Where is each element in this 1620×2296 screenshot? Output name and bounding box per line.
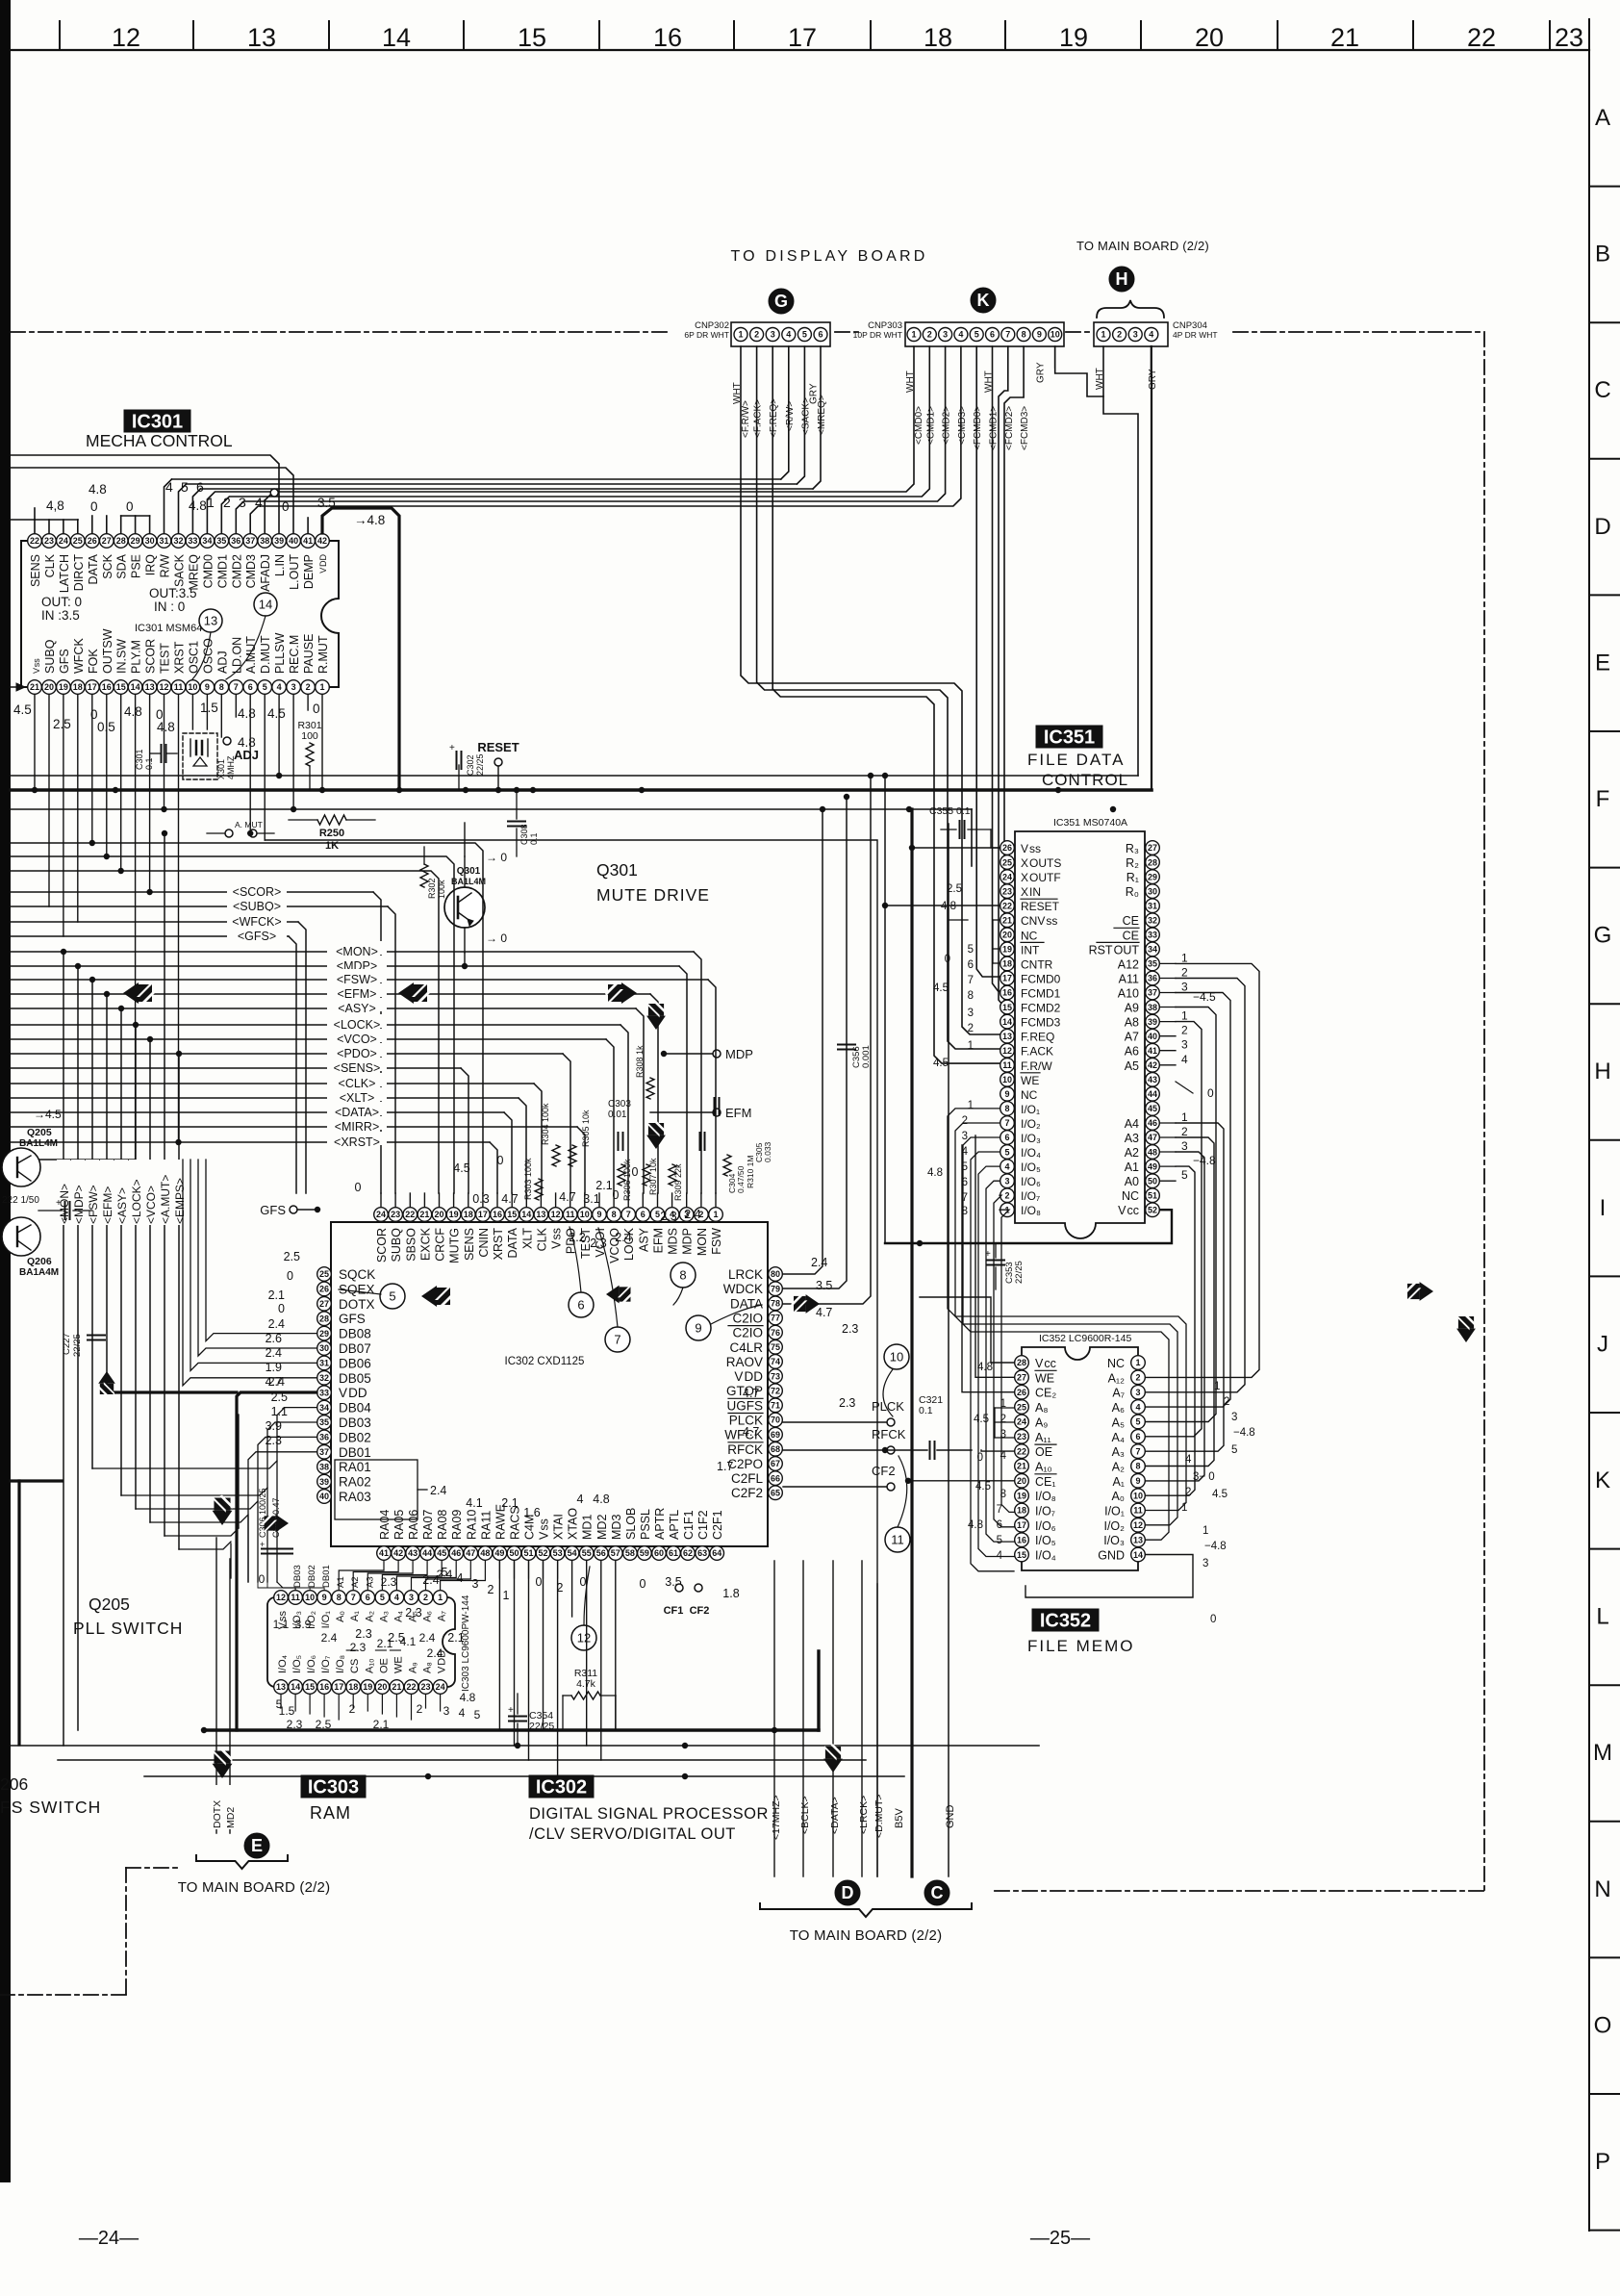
svg-text:9: 9 (596, 1210, 601, 1219)
svg-text:4.8: 4.8 (189, 498, 207, 513)
svg-text:48: 48 (480, 1548, 490, 1558)
IC302 right pin column 80-65 (769, 1267, 783, 1500)
svg-text:13: 13 (1002, 1032, 1012, 1041)
svg-text:NC: NC (1107, 1357, 1125, 1370)
svg-text:<FCMD2>: <FCMD2> (1004, 406, 1015, 450)
svg-text:19: 19 (449, 1210, 459, 1219)
svg-text:I/O₄: I/O₄ (277, 1654, 289, 1673)
svg-text:11: 11 (174, 682, 184, 692)
svg-text:36: 36 (231, 536, 240, 546)
svg-text:49: 49 (1148, 1161, 1157, 1171)
svg-text:I/O₅: I/O₅ (1021, 1161, 1041, 1174)
IC302 left pin column 25-40 (317, 1267, 332, 1504)
svg-text:ADJ: ADJ (234, 748, 259, 762)
svg-text:4.8: 4.8 (238, 706, 256, 721)
svg-text:DIGITAL SIGNAL PROCESSOR: DIGITAL SIGNAL PROCESSOR (529, 1805, 769, 1823)
svg-text:78: 78 (771, 1299, 780, 1309)
svg-text:R250: R250 (319, 828, 344, 839)
svg-text:A2: A2 (1125, 1146, 1139, 1160)
svg-text:25: 25 (319, 1269, 329, 1279)
svg-text:28: 28 (116, 536, 126, 546)
svg-text:39: 39 (274, 536, 284, 546)
svg-text:0.1: 0.1 (919, 1405, 933, 1416)
svg-text:A₄: A₄ (1112, 1431, 1125, 1444)
svg-text:17: 17 (1002, 974, 1012, 983)
svg-text:1: 1 (438, 1593, 443, 1602)
wire corridor IC302 right pins to bus (783, 773, 873, 1304)
terminal EFM (650, 1106, 751, 1120)
svg-text:2.4: 2.4 (419, 1631, 436, 1645)
svg-text:<VCO>: <VCO> (144, 1186, 158, 1224)
svg-text:PAUSE: PAUSE (302, 634, 316, 674)
svg-text:2: 2 (306, 682, 311, 692)
svg-text:20: 20 (377, 1682, 387, 1692)
svg-text:34: 34 (319, 1403, 329, 1413)
svg-text:34: 34 (1148, 945, 1157, 955)
svg-text:BA1L4M: BA1L4M (19, 1138, 58, 1149)
svg-text:I/O₅: I/O₅ (1035, 1534, 1056, 1547)
svg-text:22: 22 (30, 536, 39, 546)
IC302 circled ref 10 and 11 with leaders (883, 1344, 910, 1552)
svg-text:OUTSW: OUTSW (101, 628, 114, 674)
svg-text:2: 2 (962, 1115, 968, 1127)
svg-text:X301: X301 (216, 759, 226, 779)
svg-text:→ 0: → 0 (486, 931, 507, 945)
IC302 label box (529, 1775, 594, 1798)
svg-text:WE: WE (1021, 1074, 1039, 1087)
svg-text:0: 0 (1210, 1614, 1216, 1625)
IC303 annotations (259, 1568, 481, 1731)
svg-text:IC302: IC302 (536, 1776, 587, 1798)
svg-text:TEST: TEST (159, 643, 172, 674)
terminal GFS with wire (260, 1203, 320, 1217)
svg-text:PLL SWITCH: PLL SWITCH (73, 1619, 183, 1638)
IC302 body CXD1125 (331, 1222, 768, 1546)
svg-text:<FSW>: <FSW> (87, 1185, 100, 1224)
svg-text:RESET: RESET (477, 740, 519, 754)
svg-text:3: 3 (1004, 1176, 1009, 1186)
connector ref G (769, 289, 794, 314)
thick wire L from left to VDD line (107, 1390, 237, 1393)
svg-text:IC303 LC9600PW-144: IC303 LC9600PW-144 (461, 1594, 471, 1692)
IC302 right pin labels (723, 1267, 764, 1500)
svg-text:14: 14 (1133, 1550, 1143, 1560)
wire FCMD bus CNP303 pins5-8 down to IC351 pins17-14 (976, 346, 1024, 1020)
svg-text:23: 23 (391, 1210, 400, 1219)
dash-dot board boundary, top horizontal (11, 331, 1484, 333)
svg-text:31: 31 (319, 1359, 329, 1368)
svg-text:MD3: MD3 (610, 1515, 623, 1540)
svg-text:1: 1 (1135, 1358, 1140, 1367)
thick wire vertical left (17, 1481, 20, 1745)
svg-text:10: 10 (1050, 330, 1060, 340)
svg-text:15: 15 (116, 682, 126, 692)
reference E (244, 1833, 269, 1858)
svg-text:B5V: B5V (894, 1808, 905, 1828)
wire F-bus CNP302 pins1-3 down-right to IC351 (741, 346, 1000, 1063)
svg-text:4.7: 4.7 (816, 1306, 832, 1319)
svg-text:<CMD3>: <CMD3> (957, 406, 968, 445)
IC301 inner annotations (41, 586, 277, 679)
svg-text:RACS: RACS (509, 1506, 522, 1540)
svg-text:12: 12 (276, 1593, 286, 1602)
svg-text:GFS: GFS (339, 1312, 366, 1326)
svg-text:A9: A9 (1125, 1002, 1139, 1015)
svg-text:37: 37 (319, 1447, 329, 1457)
svg-text:5: 5 (997, 1535, 1002, 1546)
resistor R302 100k (420, 847, 446, 903)
svg-text:21: 21 (30, 682, 39, 692)
svg-text:H: H (1594, 1059, 1610, 1084)
svg-text:5: 5 (1231, 1444, 1237, 1456)
svg-text:8: 8 (1022, 330, 1026, 340)
svg-text:24: 24 (59, 536, 68, 546)
svg-text:I/O₂: I/O₂ (1103, 1519, 1125, 1533)
svg-text:55: 55 (582, 1548, 592, 1558)
svg-text:27: 27 (319, 1299, 329, 1309)
hatched arrow down 2 (646, 1120, 666, 1149)
svg-text:A₂: A₂ (364, 1611, 375, 1622)
svg-text:N: N (1594, 1876, 1610, 1902)
svg-text:79: 79 (771, 1284, 780, 1293)
svg-text:IC351: IC351 (1044, 727, 1095, 748)
wire group IC301 pins22-25 bracket (35, 508, 78, 533)
svg-text:5: 5 (474, 1708, 481, 1722)
svg-text:I/O₅: I/O₅ (291, 1655, 303, 1673)
svg-text:4.5: 4.5 (267, 706, 286, 721)
svg-text:A5: A5 (1125, 1059, 1139, 1073)
svg-text:5: 5 (389, 1289, 395, 1304)
svg-text:2: 2 (927, 330, 932, 340)
svg-text:R307 10k: R307 10k (648, 1158, 658, 1195)
svg-text:0: 0 (355, 1181, 362, 1194)
wire bundle IC303 bottom stubs (281, 1695, 441, 1720)
svg-text:14: 14 (259, 598, 272, 612)
svg-text:19: 19 (1002, 945, 1012, 955)
svg-text:15: 15 (518, 23, 546, 52)
connector ref K (971, 288, 996, 313)
svg-text:MDP: MDP (725, 1047, 753, 1061)
caption Q206 GFS SWITCH (0, 1774, 101, 1817)
svg-text:F: F (1596, 786, 1610, 812)
svg-text:65: 65 (771, 1489, 780, 1498)
svg-text:43: 43 (408, 1548, 418, 1558)
svg-text:EFM: EFM (725, 1106, 751, 1120)
svg-text:A₆: A₆ (1112, 1401, 1125, 1415)
wire IC302 bottom pin drops to buses (499, 1561, 615, 1776)
IC352 right annotations (1181, 1381, 1255, 1625)
svg-text:C2F1: C2F1 (711, 1510, 724, 1540)
svg-text:<EMPS>: <EMPS> (173, 1178, 187, 1224)
svg-text:H: H (1116, 269, 1128, 289)
svg-text:I/O₄: I/O₄ (1035, 1549, 1056, 1563)
svg-text:2: 2 (349, 1702, 356, 1716)
svg-text:DB03: DB03 (292, 1565, 303, 1588)
svg-text:IRQ: IRQ (144, 554, 158, 576)
svg-text:13: 13 (276, 1682, 286, 1692)
svg-text:0.47/50: 0.47/50 (736, 1165, 746, 1193)
svg-text:<F.R/W>: <F.R/W> (741, 400, 751, 438)
svg-text:9: 9 (695, 1321, 701, 1336)
svg-text:4P DR WHT: 4P DR WHT (1173, 330, 1218, 340)
svg-text:37: 37 (245, 536, 255, 546)
vertical wire D.MUT (873, 1584, 885, 1876)
svg-text:SUBQ: SUBQ (390, 1228, 403, 1263)
svg-text:3: 3 (1181, 1139, 1188, 1153)
svg-text:61: 61 (669, 1548, 678, 1558)
hatched arrow near pin78 DATA (791, 1294, 820, 1314)
hatched arrow down 1 (646, 1001, 666, 1030)
svg-text:RA09: RA09 (450, 1510, 464, 1540)
svg-text:CNV ss: CNV ss (1021, 914, 1057, 928)
vertical wire B5V thick (894, 809, 912, 1876)
svg-text:22/25: 22/25 (475, 753, 485, 776)
svg-text:I/O₂: I/O₂ (1021, 1117, 1041, 1131)
capacitor C353 22/25 (985, 1243, 1025, 1289)
svg-text:24: 24 (376, 1210, 386, 1219)
svg-text:4.8: 4.8 (460, 1691, 476, 1704)
svg-text:32: 32 (1148, 916, 1157, 926)
svg-text:→ 0: → 0 (486, 851, 507, 864)
IC302 voltage annotations bottom (355, 1492, 739, 1645)
svg-text:3: 3 (1181, 1038, 1188, 1052)
svg-text:1: 1 (911, 330, 916, 340)
svg-text:51: 51 (523, 1548, 533, 1558)
svg-text:22/25: 22/25 (72, 1334, 83, 1357)
svg-text:XRST: XRST (492, 1228, 505, 1261)
svg-text:6: 6 (641, 1210, 645, 1219)
transistor Q205 BA1L4M (2, 1108, 62, 1186)
svg-text:8: 8 (612, 1210, 617, 1219)
svg-text:I/O₃: I/O₃ (1103, 1534, 1125, 1547)
svg-text:2.5: 2.5 (53, 717, 71, 731)
svg-text:53: 53 (553, 1548, 563, 1558)
svg-text:V cc: V cc (1118, 1204, 1139, 1217)
bus bottom junction dots (201, 1727, 777, 1748)
capacitor C356 0.001 (838, 1045, 872, 1069)
svg-text:A6: A6 (1125, 1045, 1139, 1059)
svg-text:4: 4 (1004, 1161, 1009, 1171)
bus thick bottom corner up (817, 1651, 820, 1730)
bus line thin upper (11, 775, 1138, 777)
svg-text:0: 0 (126, 499, 134, 514)
svg-text:A₁₂: A₁₂ (1108, 1371, 1126, 1385)
svg-text:<ASY>: <ASY> (338, 1002, 376, 1015)
svg-text:<LOCK>: <LOCK> (130, 1179, 143, 1224)
svg-text:FCMD3: FCMD3 (1021, 1016, 1061, 1030)
wire bus IC301 CMD0-3 pins34-37 to CNP303 pins1-4 (207, 346, 961, 533)
bus thin bottom 2 (58, 1759, 866, 1761)
IC351 left pin stub wires (882, 845, 1000, 963)
svg-text:54: 54 (568, 1548, 577, 1558)
svg-text:5: 5 (181, 479, 189, 495)
svg-text:2.1: 2.1 (595, 1179, 612, 1192)
svg-text:NC: NC (1021, 1088, 1038, 1102)
svg-text:47: 47 (1148, 1133, 1157, 1142)
svg-text:L.OUT: L.OUT (288, 554, 301, 590)
svg-text:68: 68 (771, 1444, 780, 1454)
svg-text:2.4: 2.4 (430, 1484, 446, 1497)
svg-text:<FCMD3>: <FCMD3> (1020, 406, 1030, 450)
svg-text:INT: INT (1021, 943, 1040, 957)
wire comb from IC301 bottom pins to signal lines (32, 695, 325, 1160)
IC303 body LC9600PW-144 (267, 1597, 455, 1687)
svg-text:22: 22 (405, 1210, 415, 1219)
terminal MDP (661, 1047, 753, 1061)
svg-text:42: 42 (1148, 1060, 1157, 1070)
thick wire VDD to IC302 pin33 (237, 1392, 316, 1730)
svg-text:12: 12 (1133, 1520, 1143, 1530)
svg-text:8: 8 (219, 682, 224, 692)
IC303 bottom pin labels (277, 1650, 448, 1673)
svg-text:3.5: 3.5 (816, 1279, 832, 1292)
svg-text:/CLV SERVO/DIGITAL OUT: /CLV SERVO/DIGITAL OUT (529, 1825, 736, 1843)
thick wire horizontal stub (11, 1479, 62, 1482)
svg-text:0: 0 (640, 1577, 646, 1591)
svg-text:1.7: 1.7 (717, 1460, 733, 1473)
svg-text:O: O (1594, 2012, 1612, 2038)
svg-text:2.1: 2.1 (501, 1496, 518, 1510)
svg-text:DB08: DB08 (339, 1327, 371, 1341)
svg-text:30: 30 (145, 536, 155, 546)
svg-text:1: 1 (968, 1100, 974, 1111)
hatched arrow down before D (823, 1744, 843, 1773)
svg-text:7: 7 (351, 1593, 356, 1602)
svg-text:Q205: Q205 (27, 1127, 52, 1138)
svg-text:D: D (1594, 514, 1610, 540)
svg-text:36: 36 (319, 1433, 329, 1442)
svg-text:44: 44 (422, 1548, 432, 1558)
svg-text:RA01: RA01 (339, 1460, 371, 1474)
hatched arrow right edge DATA (1405, 1282, 1433, 1301)
svg-text:<GFS>: <GFS> (238, 930, 276, 943)
svg-text:35: 35 (1148, 959, 1157, 969)
svg-text:TO DISPLAY BOARD: TO DISPLAY BOARD (730, 248, 927, 265)
svg-text:3: 3 (1133, 330, 1138, 340)
wire VDD rail from IC301 pin42 via top-right corner down to bus (thick) (322, 508, 399, 788)
svg-text:V ss: V ss (32, 658, 41, 674)
transistor Q301 BA1L4M mute drive (444, 866, 486, 928)
svg-text:3: 3 (472, 1577, 479, 1591)
svg-text:0.033: 0.033 (763, 1141, 772, 1162)
svg-text:—25—: —25— (1030, 2228, 1090, 2249)
svg-text:26: 26 (1002, 843, 1012, 853)
svg-text:C1F1: C1F1 (682, 1510, 696, 1540)
svg-text:Q301: Q301 (596, 860, 638, 880)
IC301 pin voltage annotations top (46, 479, 385, 527)
CNP304 pin wire labels (1095, 368, 1158, 390)
svg-text:10: 10 (188, 682, 197, 692)
svg-text:37: 37 (1148, 988, 1157, 998)
IC351 body MS0740A (1015, 831, 1145, 1238)
svg-text:BA1A4M: BA1A4M (19, 1267, 59, 1278)
svg-text:R₂: R₂ (1126, 856, 1139, 870)
svg-text:DB07: DB07 (339, 1341, 371, 1356)
svg-text:A10: A10 (1118, 987, 1139, 1001)
IC302 bottom pin row 41-64 (377, 1546, 724, 1561)
vertical wire GND (945, 824, 956, 1876)
svg-text:DB03: DB03 (339, 1416, 371, 1430)
svg-text:TO MAIN BOARD (2/2): TO MAIN BOARD (2/2) (790, 1927, 943, 1944)
svg-text:52: 52 (1148, 1206, 1157, 1215)
svg-text:3: 3 (771, 330, 775, 340)
IC303 DB labels above pins (292, 1565, 375, 1588)
svg-text:22/25: 22/25 (1014, 1261, 1025, 1284)
arrow annotation at IC301 pin21 (11, 683, 25, 691)
svg-text:PLLSW: PLLSW (273, 632, 287, 674)
svg-text:NC: NC (1021, 929, 1038, 942)
svg-text:33: 33 (188, 536, 197, 546)
svg-text:206: 206 (0, 1774, 28, 1794)
svg-text:1.1: 1.1 (273, 1618, 290, 1631)
transistor Q206 BA1A4M (2, 1217, 59, 1278)
svg-text:RESET: RESET (1021, 900, 1060, 913)
svg-text:33: 33 (1148, 931, 1157, 940)
svg-text:APTL: APTL (668, 1510, 681, 1540)
svg-text:14: 14 (521, 1210, 531, 1219)
svg-text:42: 42 (317, 536, 327, 546)
svg-text:1.5: 1.5 (200, 701, 218, 715)
svg-text:20: 20 (1002, 931, 1012, 940)
IC301 bottom pin labels (32, 628, 330, 674)
svg-text:SLOB: SLOB (624, 1508, 638, 1540)
svg-text:RA02: RA02 (339, 1475, 371, 1490)
svg-text:48: 48 (1148, 1147, 1157, 1157)
svg-text:CNIN: CNIN (477, 1228, 491, 1258)
svg-text:I/O₃: I/O₃ (1021, 1132, 1041, 1145)
terminal CF2 (783, 1464, 896, 1491)
svg-text:5: 5 (1004, 1147, 1009, 1157)
svg-text:XTAO: XTAO (567, 1508, 580, 1540)
terminals CF1 CF2 bottom (664, 1584, 710, 1617)
svg-text:2: 2 (423, 1593, 428, 1602)
svg-text:LRCK: LRCK (728, 1267, 763, 1282)
svg-text:40: 40 (1148, 1032, 1157, 1041)
svg-text:4.7: 4.7 (743, 1425, 759, 1439)
svg-text:2: 2 (1181, 1125, 1188, 1138)
svg-text:38: 38 (319, 1462, 329, 1471)
svg-text:20: 20 (44, 682, 54, 692)
svg-text:GND: GND (1098, 1549, 1125, 1563)
svg-text:A12: A12 (1118, 957, 1139, 971)
svg-text:OUT:3.5: OUT:3.5 (149, 586, 197, 600)
svg-text:35: 35 (216, 536, 226, 546)
Q301 collector annotation 0 (465, 851, 507, 887)
svg-text:A₀: A₀ (1111, 1490, 1125, 1503)
svg-text:4.8: 4.8 (124, 704, 142, 719)
svg-text:71: 71 (771, 1401, 780, 1411)
svg-text:M: M (1593, 1740, 1612, 1766)
svg-text:4.5: 4.5 (13, 702, 32, 717)
svg-text:24: 24 (1017, 1417, 1026, 1427)
svg-text:I/O₇: I/O₇ (1035, 1505, 1055, 1518)
svg-text:15: 15 (1002, 1003, 1012, 1012)
svg-text:CRCF: CRCF (434, 1228, 447, 1262)
svg-text:18: 18 (1002, 959, 1012, 969)
svg-text:21: 21 (1002, 916, 1012, 926)
svg-text:26: 26 (319, 1285, 329, 1294)
hatched arrow left bundle (123, 982, 155, 1004)
svg-text:19: 19 (1017, 1491, 1026, 1500)
svg-text:39: 39 (319, 1477, 329, 1487)
svg-text:6: 6 (577, 1298, 584, 1313)
svg-text:FCMD0: FCMD0 (1021, 973, 1061, 986)
IC302 voltage annotations left side (266, 1250, 300, 1447)
bus thick bottom (204, 1728, 819, 1731)
terminal pair A.MUT (207, 820, 274, 837)
svg-text:41: 41 (1148, 1046, 1157, 1056)
svg-text:38: 38 (1148, 1003, 1157, 1012)
